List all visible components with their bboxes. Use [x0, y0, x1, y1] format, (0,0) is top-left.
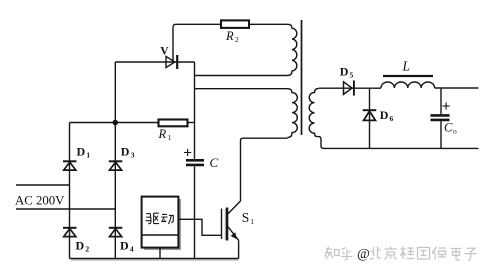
svg-text:C: C: [444, 121, 453, 135]
transistor S1 collector slant: [228, 201, 241, 214]
driver box divider: [142, 234, 179, 236]
diode D6: [363, 110, 377, 120]
svg-text:D: D: [340, 64, 349, 78]
node: plus sign of C: [184, 149, 191, 156]
diode D4: [109, 228, 123, 237]
wire: winding W1 bottom lead: [195, 75, 288, 77]
svg-text:1: 1: [168, 133, 172, 142]
wire: driver box bottom lead: [159, 248, 161, 259]
svg-text:C: C: [210, 155, 219, 170]
wire: bottom rail shadow: [71, 259, 238, 261]
svg-text:V: V: [160, 45, 169, 57]
node label D1: [77, 145, 91, 160]
wire: secondary bottom rail: [324, 147, 479, 149]
wire: emitter to bottom rail: [238, 240, 240, 258]
svg-text:6: 6: [390, 114, 394, 123]
svg-text:4: 4: [130, 244, 134, 253]
transformer winding W1 (upper primary): [288, 24, 297, 75]
driver box U2: [142, 197, 179, 248]
wire: winding W2 bottom lead to collector: [241, 138, 288, 201]
svg-text:D: D: [76, 239, 85, 253]
transistor S1 emitter slant: [228, 227, 239, 241]
transformer secondary winding: [309, 88, 323, 148]
wire: bridge left leg: [69, 123, 71, 259]
svg-text:2: 2: [85, 244, 89, 253]
diode D5: [344, 80, 354, 95]
diode V: [166, 55, 177, 69]
wire: mid vertical below C to bottom rail: [194, 166, 196, 258]
svg-text:o: o: [453, 126, 457, 135]
wire: bottom rail: [70, 258, 239, 260]
wire: L to right edge (top secondary rail): [435, 87, 479, 89]
diode D2: [63, 228, 77, 237]
transistor S1 (IGBT) gate bar: [221, 209, 223, 240]
transistor S1 body bar shadow: [224, 209, 226, 241]
svg-text:D: D: [121, 145, 130, 159]
svg-text:D: D: [380, 108, 389, 122]
diode D1: [63, 161, 77, 170]
driver box shadow: [144, 199, 181, 250]
diode D3: [109, 161, 123, 170]
capacitor Co: [431, 115, 450, 120]
svg-text:L: L: [402, 59, 411, 74]
node label D4: [120, 239, 134, 254]
junction dot: [113, 120, 119, 126]
node label R2: [225, 29, 239, 44]
resistor R1: [159, 120, 188, 127]
transistor S1 emitter arrow: [231, 232, 237, 239]
node label R1: [158, 127, 172, 142]
svg-text:D: D: [77, 145, 86, 159]
node: plus sign of Co: [443, 102, 450, 109]
svg-text:S: S: [242, 210, 250, 225]
transistor S1 body bar: [226, 208, 228, 241]
wire: bridge top rail: [70, 122, 159, 124]
svg-text:3: 3: [131, 150, 135, 159]
capacitor C: [186, 160, 204, 165]
svg-text:R: R: [158, 127, 167, 141]
wire: secondary top lead to D5: [319, 87, 381, 89]
svg-text:1: 1: [86, 150, 90, 159]
wire: winding W2 top lead: [195, 88, 288, 90]
wire: V loop top horizontal to diode: [115, 61, 194, 63]
wire: riser from V cathode to top loop: [173, 24, 221, 62]
wire: driver output to gate: [178, 219, 220, 235]
svg-text:5: 5: [350, 70, 354, 79]
wire: Co branch lower: [440, 121, 442, 148]
wire: left vertical of V loop: [114, 62, 116, 123]
transformer winding W2 (main primary): [288, 89, 298, 138]
wire: AC input upper line: [16, 184, 70, 186]
wire: bridge top rail right of R1: [188, 122, 195, 124]
node label D6: [380, 108, 394, 123]
transformer core: [301, 20, 303, 135]
svg-text:1: 1: [250, 217, 254, 226]
wire: D6 branch vertical: [369, 88, 371, 148]
svg-text:@: @: [357, 247, 370, 262]
node label C: [210, 155, 219, 170]
node label S1: [242, 210, 255, 226]
inductor L: [381, 82, 435, 88]
node label D2: [76, 239, 90, 254]
svg-text:D: D: [120, 239, 129, 253]
wire: R2 to transformer winding 1: [249, 23, 288, 25]
wire: Co branch upper: [440, 88, 442, 114]
node label 驱动 (drive): [146, 213, 174, 224]
node: watermark 知乎 @北京稳固得电子: [325, 247, 477, 263]
wire: bridge right leg: [114, 123, 116, 259]
resistor R2: [221, 20, 249, 28]
inductor L core bar: [383, 75, 433, 77]
node label L: [402, 59, 411, 74]
node: AC 200V label: [15, 194, 65, 208]
svg-text:R: R: [225, 29, 234, 43]
wire: mid vertical from V node down to capacitor C: [194, 62, 196, 159]
svg-text:2: 2: [235, 35, 239, 44]
wire: AC input lower line: [16, 208, 115, 210]
node label D3: [121, 145, 135, 160]
svg-text:AC 200V: AC 200V: [15, 194, 65, 208]
node label V: [160, 45, 169, 57]
node label Co: [444, 121, 457, 136]
node label D5: [340, 64, 354, 79]
